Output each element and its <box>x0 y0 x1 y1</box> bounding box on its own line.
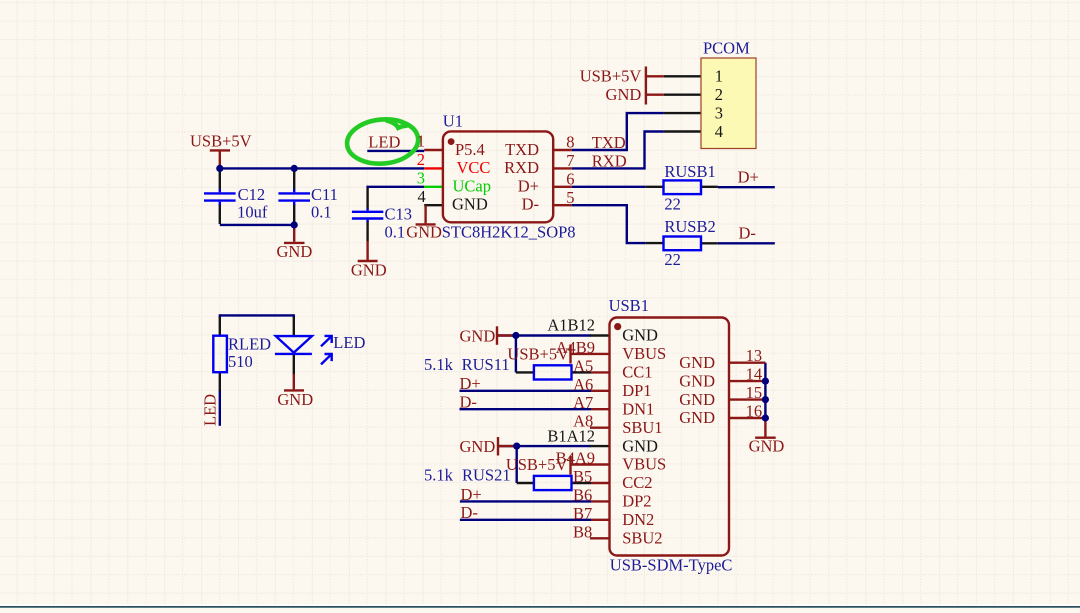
svg-text:CC1: CC1 <box>622 363 652 382</box>
svg-text:GND: GND <box>679 390 715 409</box>
svg-text:DP1: DP1 <box>622 381 651 400</box>
svg-text:PCOM: PCOM <box>703 38 750 57</box>
svg-text:LED: LED <box>368 133 400 152</box>
svg-text:5.1k: 5.1k <box>424 355 454 374</box>
svg-text:0.1: 0.1 <box>311 203 332 222</box>
svg-text:RLED: RLED <box>228 334 271 353</box>
svg-text:DN1: DN1 <box>622 399 654 418</box>
svg-text:B1A12: B1A12 <box>547 426 595 445</box>
svg-text:4: 4 <box>418 187 426 206</box>
svg-text:GND: GND <box>460 327 496 346</box>
svg-text:RXD: RXD <box>504 158 539 177</box>
svg-text:8: 8 <box>566 133 574 152</box>
svg-text:2: 2 <box>715 85 723 104</box>
svg-text:D-: D- <box>461 503 478 522</box>
svg-text:C12: C12 <box>238 185 266 204</box>
svg-text:B5: B5 <box>573 467 592 486</box>
svg-text:16: 16 <box>746 402 763 421</box>
svg-text:A5: A5 <box>573 356 593 375</box>
svg-text:GND: GND <box>622 436 658 455</box>
svg-text:B6: B6 <box>573 485 592 504</box>
svg-text:C11: C11 <box>311 185 338 204</box>
svg-text:GND: GND <box>277 390 313 409</box>
svg-text:A1B12: A1B12 <box>547 316 595 335</box>
svg-text:GND: GND <box>406 222 442 241</box>
svg-text:LED: LED <box>333 333 365 352</box>
svg-text:D-: D- <box>460 393 477 412</box>
svg-text:510: 510 <box>228 352 253 371</box>
svg-text:VBUS: VBUS <box>622 455 666 474</box>
svg-text:STC8H2K12_SOP8: STC8H2K12_SOP8 <box>442 222 576 241</box>
svg-text:SBU1: SBU1 <box>622 418 662 437</box>
svg-text:RXD: RXD <box>592 151 627 170</box>
svg-text:GND: GND <box>460 437 496 456</box>
svg-text:GND: GND <box>606 85 642 104</box>
svg-text:15: 15 <box>746 383 763 402</box>
svg-text:D+: D+ <box>518 176 539 195</box>
svg-text:TXD: TXD <box>592 133 626 152</box>
svg-text:D+: D+ <box>738 167 759 186</box>
svg-text:P5.4: P5.4 <box>455 140 485 159</box>
svg-text:1: 1 <box>715 67 723 86</box>
svg-text:RUS21: RUS21 <box>462 465 511 484</box>
svg-text:3: 3 <box>715 104 723 123</box>
svg-text:B8: B8 <box>573 522 592 541</box>
svg-text:2: 2 <box>417 150 425 169</box>
svg-text:SBU2: SBU2 <box>622 529 662 548</box>
svg-text:22: 22 <box>664 250 681 269</box>
svg-text:USB+5V: USB+5V <box>190 132 252 151</box>
svg-text:DN2: DN2 <box>622 510 654 529</box>
svg-text:13: 13 <box>746 346 763 365</box>
svg-text:GND: GND <box>679 408 715 427</box>
svg-text:D-: D- <box>522 195 539 214</box>
svg-text:GND: GND <box>351 261 387 280</box>
svg-text:VCC: VCC <box>457 158 491 177</box>
svg-text:RUSB2: RUSB2 <box>664 217 715 236</box>
svg-text:UCap: UCap <box>453 176 492 195</box>
svg-text:DP2: DP2 <box>622 492 651 511</box>
svg-text:A6: A6 <box>573 375 593 394</box>
svg-text:GND: GND <box>679 353 715 372</box>
svg-text:D-: D- <box>739 223 756 242</box>
svg-text:USB-SDM-TypeC: USB-SDM-TypeC <box>610 555 733 574</box>
svg-text:10uf: 10uf <box>237 203 268 222</box>
svg-text:0.1: 0.1 <box>385 222 406 241</box>
svg-text:RUSB1: RUSB1 <box>664 162 715 181</box>
svg-text:6: 6 <box>566 169 574 188</box>
svg-text:GND: GND <box>277 242 313 261</box>
svg-text:7: 7 <box>566 151 574 170</box>
svg-text:GND: GND <box>622 326 658 345</box>
svg-text:USB+5V: USB+5V <box>507 345 569 364</box>
svg-text:4: 4 <box>715 122 723 141</box>
svg-text:TXD: TXD <box>505 140 539 159</box>
svg-text:U1: U1 <box>443 111 463 130</box>
svg-text:USB1: USB1 <box>609 296 649 315</box>
svg-text:22: 22 <box>664 195 681 214</box>
svg-text:D+: D+ <box>461 485 482 504</box>
svg-text:D+: D+ <box>460 374 481 393</box>
svg-text:5: 5 <box>566 188 574 207</box>
svg-text:GND: GND <box>679 371 715 390</box>
svg-text:USB+5V: USB+5V <box>580 67 642 86</box>
svg-text:RUS11: RUS11 <box>462 355 510 374</box>
svg-text:LED: LED <box>201 394 220 426</box>
svg-text:B7: B7 <box>573 504 592 523</box>
svg-text:GND: GND <box>749 437 785 456</box>
svg-text:USB+5V: USB+5V <box>506 455 568 474</box>
svg-text:5.1k: 5.1k <box>424 465 454 484</box>
svg-text:GND: GND <box>452 195 488 214</box>
svg-text:14: 14 <box>746 365 763 384</box>
svg-text:1: 1 <box>417 132 425 151</box>
svg-text:A7: A7 <box>573 393 593 412</box>
svg-text:3: 3 <box>417 168 425 187</box>
svg-text:C13: C13 <box>385 204 413 223</box>
svg-text:CC2: CC2 <box>622 473 652 492</box>
svg-text:VBUS: VBUS <box>622 344 666 363</box>
